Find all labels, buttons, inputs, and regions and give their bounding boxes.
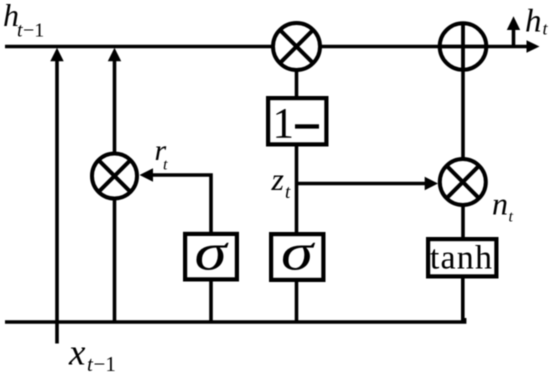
wire stub below bottom line bbox=[55, 322, 59, 344]
multiplier circle reset r*h bbox=[92, 154, 137, 199]
wire vertical A (x=57 bottom line to top arrow) bbox=[55, 59, 59, 322]
arrowhead up arrow A bbox=[50, 48, 63, 61]
arrowhead h_t up arrow bbox=[507, 16, 520, 30]
svg-text:σ: σ bbox=[194, 223, 228, 280]
svg-text:z: z bbox=[271, 161, 285, 197]
label x_{t-1} bbox=[68, 333, 116, 377]
svg-text:−1: −1 bbox=[94, 352, 116, 376]
wire tanh down to bottom line bbox=[461, 277, 465, 322]
wire sigma2 down to bottom line bbox=[295, 280, 299, 322]
wire bottom x line bbox=[5, 318, 465, 322]
svg-text:−1: −1 bbox=[23, 20, 44, 42]
adder circle plus bbox=[440, 23, 487, 70]
wire vertical B (x=114.5 through reset gate circle) bbox=[113, 59, 117, 322]
arrowhead up arrow B bbox=[108, 48, 121, 61]
arrowhead r_t into reset multiplier bbox=[140, 168, 154, 181]
svg-text:t: t bbox=[163, 157, 168, 174]
wire h_t up arrow shaft bbox=[512, 30, 516, 47]
svg-text:tanh: tanh bbox=[430, 240, 493, 277]
wire from 1- box down to sigma2 (z_t line) bbox=[295, 144, 299, 234]
svg-text:t: t bbox=[509, 209, 514, 226]
label h_{t-1} bbox=[3, 0, 44, 42]
wire sigma1 down to bottom line bbox=[209, 280, 213, 322]
box sigma2 bbox=[271, 234, 323, 280]
box tanh bbox=[428, 239, 496, 276]
box sigma1 bbox=[185, 234, 237, 280]
wire top h line bbox=[5, 45, 528, 49]
svg-text:h: h bbox=[525, 4, 542, 40]
box 1-minus bbox=[268, 98, 326, 144]
svg-text:n: n bbox=[492, 186, 508, 222]
label z_t bbox=[271, 161, 292, 203]
wire from top multiplier down to 1- box bbox=[295, 69, 299, 98]
svg-text:1: 1 bbox=[273, 101, 295, 148]
svg-text:σ: σ bbox=[281, 224, 315, 281]
label n_t bbox=[492, 186, 514, 226]
arrowhead z_t into n multiplier bbox=[425, 177, 438, 190]
svg-text:x: x bbox=[68, 333, 86, 374]
multiplier circle top (1-z)*h bbox=[273, 23, 320, 70]
arrowhead right end of top line bbox=[527, 40, 540, 53]
wire r_t path from sigma1 to reset multiplier bbox=[150, 175, 211, 234]
wire vertical through plus and n multiplier bbox=[461, 23, 465, 239]
svg-text:t: t bbox=[285, 182, 291, 203]
label h_t bbox=[525, 4, 549, 40]
multiplier circle n*z bbox=[440, 159, 486, 205]
wire z_t arrow horizontal bbox=[297, 182, 427, 186]
label r_t bbox=[155, 134, 169, 174]
